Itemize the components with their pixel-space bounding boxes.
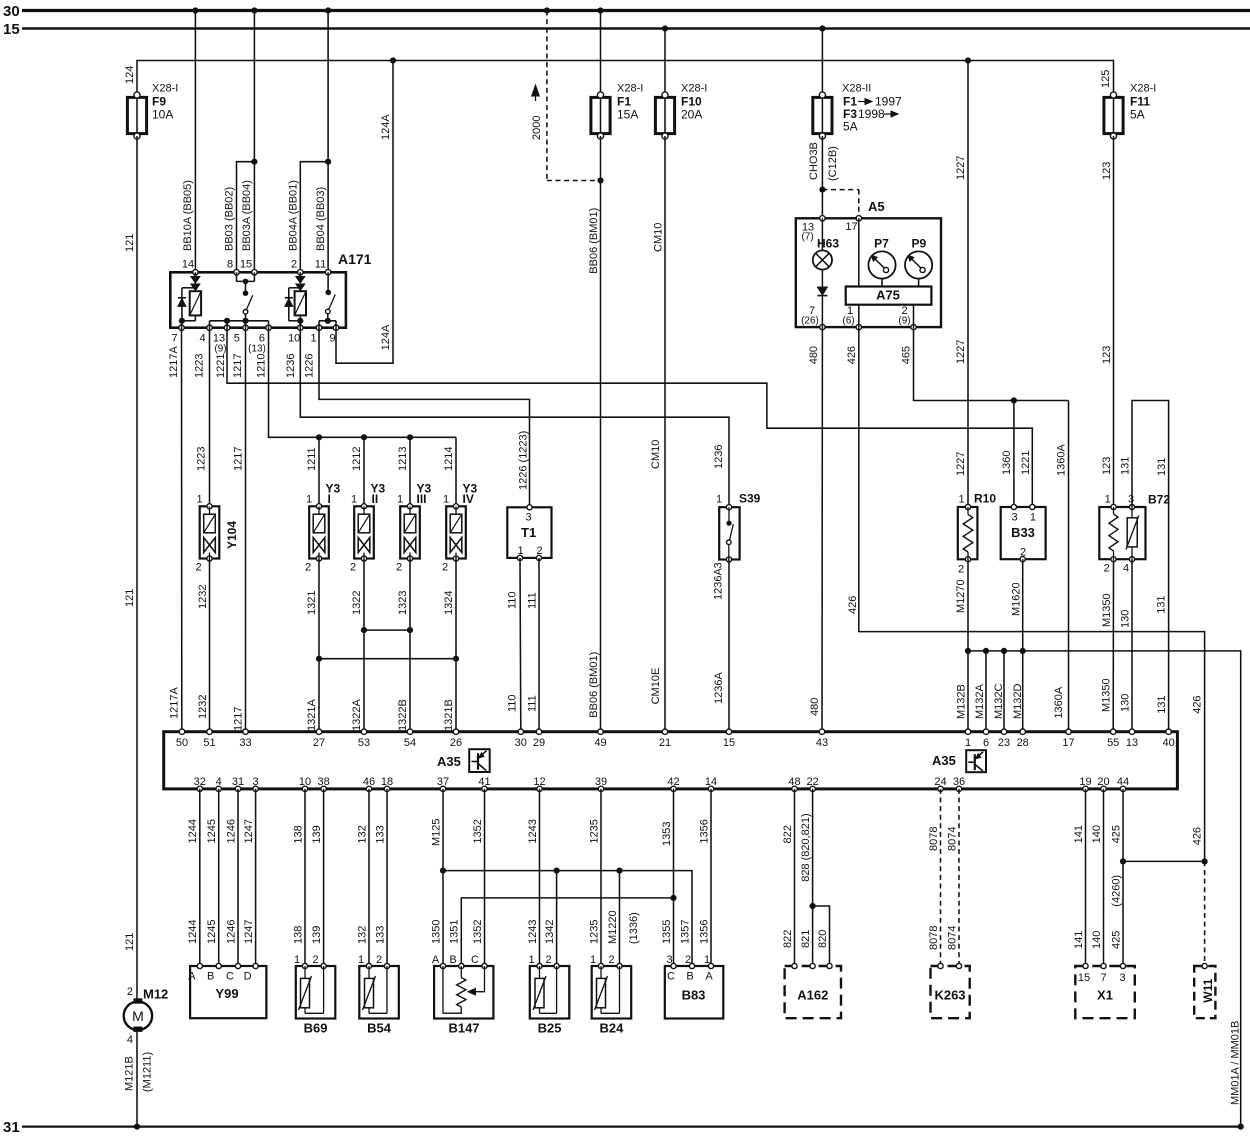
valve Y104 [200,504,220,561]
svg-text:44: 44 [1117,776,1129,788]
svg-text:139: 139 [311,926,323,944]
A35 pin 31 [235,786,240,791]
wire 1217A A171 pin7 to A35 pin50 [181,328,183,732]
svg-text:B: B [449,954,456,966]
svg-text:2: 2 [1020,547,1026,559]
svg-text:131: 131 [1156,695,1168,713]
dashed wire 8074 A35 pin36 to K263 [958,789,960,966]
wire 1226 A171 pin1 to T1 pin3 [319,328,530,508]
A35 pin 1 [965,729,970,734]
svg-text:T1: T1 [521,525,536,540]
instrument cluster A5 [796,199,941,327]
svg-text:26: 26 [450,737,462,749]
wire 1221 A171 pin13 to B33 pin1 [227,328,1032,507]
svg-text:426: 426 [847,596,859,614]
svg-text:4: 4 [1123,563,1129,575]
svg-text:1214: 1214 [443,447,455,471]
svg-text:(C12B): (C12B) [827,146,839,181]
wire 426 A5 pin1 to W11 [859,327,1205,861]
diode D2 [288,288,290,321]
A35 pin 12 [537,786,542,791]
svg-text:P7: P7 [874,237,889,251]
svg-text:41: 41 [478,776,490,788]
svg-text:M132C: M132C [993,683,1005,719]
svg-text:14: 14 [705,776,717,788]
svg-text:(6): (6) [842,316,854,327]
wire M132D to A35 pin28 [1022,651,1024,732]
A35 pin 49 [598,729,603,734]
svg-text:1356: 1356 [698,819,710,843]
svg-text:111: 111 [527,592,539,609]
svg-text:821: 821 [800,930,812,948]
wire 1245 A35 to Y99 [218,789,220,966]
lamp H63 [813,218,840,327]
svg-text:1236A: 1236A [713,568,725,600]
A35 pin 37 [440,786,445,791]
A5 pin 17 [856,216,861,221]
svg-text:125: 125 [1100,70,1112,88]
svg-text:1232: 1232 [197,585,209,609]
svg-text:1342: 1342 [544,920,556,944]
svg-text:1217: 1217 [232,354,244,378]
wire 124A A171 pin9 [336,61,393,364]
svg-text:1243: 1243 [527,819,539,843]
svg-text:1217A: 1217A [168,346,180,378]
fuse F10 20A [655,83,707,140]
svg-text:33: 33 [239,737,251,749]
actuator Y99 [188,963,266,1018]
svg-text:42: 42 [667,776,679,788]
svg-text:2: 2 [546,954,552,966]
svg-text:2: 2 [350,562,356,574]
A35 pin 24 [938,786,943,791]
svg-text:CHO3B: CHO3B [808,142,820,180]
sensor B83 [665,954,724,1019]
switch S39 [716,491,761,562]
svg-text:140: 140 [1091,825,1103,843]
svg-text:B83: B83 [682,988,706,1003]
svg-text:130: 130 [1120,610,1132,628]
svg-text:40: 40 [1162,737,1174,749]
svg-text:2: 2 [195,562,201,574]
amplifier A75 [846,218,932,327]
A35 pin 32 [197,786,202,791]
svg-text:1226 (1223): 1226 (1223) [518,431,530,490]
svg-text:1: 1 [196,494,202,506]
svg-text:141: 141 [1073,825,1085,843]
svg-text:M1350: M1350 [1101,678,1113,712]
svg-text:141: 141 [1073,931,1085,949]
A171 relay switch 1 [210,272,269,327]
svg-text:8078: 8078 [928,827,940,851]
A35 label right [932,750,986,772]
svg-text:1246: 1246 [225,819,237,843]
injector Y3 IV [446,504,466,561]
svg-text:1223: 1223 [194,354,206,378]
svg-text:1: 1 [358,954,364,966]
svg-text:123: 123 [1101,346,1113,364]
svg-text:X1: X1 [1097,988,1113,1003]
svg-text:1245: 1245 [206,920,218,944]
svg-text:1247: 1247 [243,819,255,843]
svg-text:480: 480 [808,346,820,364]
svg-text:1217: 1217 [233,447,245,471]
svg-text:3: 3 [1119,972,1125,984]
svg-text:5A: 5A [1130,108,1145,122]
injector Y3 II [354,504,374,561]
svg-text:36: 36 [953,776,965,788]
A35 pin 17 [1066,729,1071,734]
sensor B54 [358,954,399,1035]
diode D1 [181,288,183,321]
svg-text:133: 133 [374,926,386,944]
svg-text:M1620: M1620 [1011,582,1023,616]
wire stub BB03 A171 pin8 [237,162,255,270]
svg-text:822: 822 [782,930,794,948]
svg-text:12: 12 [533,776,545,788]
svg-text:1236: 1236 [713,445,725,469]
svg-text:CM10: CM10 [650,440,662,469]
svg-text:X28-I: X28-I [1130,83,1156,95]
svg-text:828 (820,821): 828 (820,821) [800,813,812,882]
A171 pin 6 [266,325,271,330]
svg-text:32: 32 [194,776,206,788]
svg-text:9: 9 [329,333,335,345]
sensor B147 potentiometer [432,954,494,1018]
svg-text:15: 15 [723,737,735,749]
svg-text:2: 2 [537,545,543,557]
svg-text:1: 1 [590,954,596,966]
wire 1211 [318,437,320,506]
svg-text:(M1211): (M1211) [142,1052,154,1092]
relay module A171 [170,251,371,328]
fuse F1/F3 5A [813,83,902,140]
svg-text:BB04A (BB01): BB04A (BB01) [288,180,300,251]
svg-text:14: 14 [182,259,194,271]
svg-text:7: 7 [171,333,177,345]
svg-text:1243: 1243 [527,920,539,944]
svg-text:(4260): (4260) [1110,875,1122,907]
svg-text:22: 22 [806,776,818,788]
wire 1210 A171 pin6 to injectors [269,328,457,438]
svg-text:822: 822 [782,825,794,843]
injector feed junctions [316,434,322,440]
svg-text:425: 425 [1110,825,1122,843]
svg-text:A35: A35 [437,754,461,769]
svg-text:1: 1 [518,545,524,557]
svg-text:5: 5 [234,333,240,345]
svg-text:1355: 1355 [661,920,673,944]
svg-text:B69: B69 [304,1021,328,1036]
wire 480 A5 pin7 to A35 pin43 [821,327,823,732]
svg-text:20: 20 [1097,776,1109,788]
wire BB10A from bus30 to A171 pin14 [194,11,196,271]
svg-text:10: 10 [288,333,300,345]
fuse F11 5A [1104,83,1156,140]
svg-text:132: 132 [356,825,368,843]
svg-text:121: 121 [124,589,136,607]
svg-text:13: 13 [1126,737,1138,749]
svg-text:B54: B54 [367,1021,392,1036]
svg-text:1227: 1227 [955,340,967,364]
svg-text:B72: B72 [1148,493,1170,507]
svg-text:2: 2 [127,986,133,998]
svg-text:M12: M12 [143,987,168,1002]
svg-text:426: 426 [846,346,858,364]
wire M125/1350 A35 pin37 to B147 pinA [442,789,444,966]
wire M1270 R10 to manifold [967,559,969,651]
svg-text:(9): (9) [898,316,910,327]
A171 pin 13 [224,325,229,330]
svg-text:1: 1 [443,494,449,506]
svg-text:8074: 8074 [946,827,958,851]
wire BB06 (BM01) F1 to A35 pin49 [600,136,602,732]
svg-text:B25: B25 [538,1021,562,1036]
wire M1220 (1336) B24 pin2 to ground jog [619,871,621,966]
svg-text:1245: 1245 [206,819,218,843]
wire 1322/1322A [363,559,365,732]
A35 pin 42 [671,786,676,791]
svg-text:1236A: 1236A [713,672,725,704]
svg-text:124A: 124A [380,114,392,140]
wire 110 T1 pin1 to A35 pin30 [519,558,522,732]
wire 1353/1355 A35 pin42 to B83 pin3 [673,789,675,966]
junction line124/1227 [965,57,971,63]
svg-text:B: B [207,971,214,983]
svg-text:MM01A / MM01B: MM01A / MM01B [1230,1021,1242,1105]
sensor B69 [294,954,335,1035]
svg-text:1323: 1323 [397,591,409,615]
svg-text:1235: 1235 [588,920,600,944]
wire 1360A to A35 pin17 [1068,401,1070,732]
A5 pin 13 [820,216,825,221]
A171 relay coil 1 (pin14/pin7) [178,272,201,327]
wire 111 T1 pin2 to A35 pin29 [538,558,540,732]
wire 1212 [363,437,365,506]
svg-text:1353: 1353 [661,822,673,846]
A171 relay coil 2 (pin2/pin10) [285,272,306,327]
connector W11 [1194,963,1215,1018]
wire 822 A35 pin48 to A162 [794,789,796,966]
svg-text:1: 1 [306,494,312,506]
connector X1 [1075,963,1135,1018]
svg-text:1: 1 [958,494,964,506]
svg-text:18: 18 [381,776,393,788]
tie 1322-1323 [364,629,410,631]
wire 139 A35 pin38 to B69 pin2 [323,789,325,966]
svg-text:1356: 1356 [698,920,710,944]
injector Y3 I [309,504,329,561]
A35 pin 29 [536,729,541,734]
wire 1235 A35 pin39 to B24 pin1 [600,789,602,966]
A35 pin 27 [316,729,321,734]
svg-text:X28-I: X28-I [617,83,643,95]
svg-text:BB06 (BM01): BB06 (BM01) [588,208,600,274]
svg-text:8: 8 [227,259,233,271]
wire CM10 F10 to A35 pin21 [664,136,666,732]
svg-text:X28-I: X28-I [681,83,707,95]
svg-text:820: 820 [817,930,829,948]
svg-text:M132A: M132A [974,683,986,719]
svg-text:1247: 1247 [243,920,255,944]
svg-text:1: 1 [294,954,300,966]
svg-text:1351: 1351 [449,920,461,944]
svg-text:43: 43 [816,737,828,749]
A35 label left [437,749,490,772]
svg-text:H63: H63 [817,237,839,251]
A35 pin 19 [1083,786,1088,791]
ignition coil T1 [507,505,551,561]
svg-text:1246: 1246 [225,920,237,944]
wire 1213 [409,437,411,506]
wire 131 B72 pin3 bridge to A35 pin40 [1132,401,1169,732]
svg-text:(7): (7) [801,232,813,243]
svg-text:3: 3 [526,512,532,524]
svg-text:15A: 15A [617,108,638,122]
svg-text:CM10E: CM10E [650,668,662,705]
svg-text:480: 480 [809,698,821,716]
wire 1227 line124 to R10 [967,61,969,508]
svg-text:31: 31 [232,776,244,788]
svg-text:29: 29 [533,737,545,749]
svg-text:1244: 1244 [187,819,199,843]
svg-text:1211: 1211 [306,447,318,471]
junction 465/1360 [1011,397,1017,403]
svg-text:A5: A5 [868,199,885,214]
svg-text:55: 55 [1107,737,1119,749]
svg-text:1227: 1227 [955,156,967,180]
svg-text:C: C [667,971,675,983]
wire 1352 A35 pin41 to B147 pinC [484,789,486,966]
svg-text:R10: R10 [974,492,996,506]
svg-text:10: 10 [299,776,311,788]
svg-text:2: 2 [685,954,691,966]
svg-text:1226: 1226 [304,354,316,378]
svg-text:3: 3 [1011,512,1017,524]
svg-text:5A: 5A [843,120,858,134]
svg-text:53: 53 [358,737,370,749]
svg-text:(13): (13) [248,344,266,355]
A35 pin 33 [243,729,248,734]
ECU A35 [164,732,1178,789]
A35 pin 46 [366,786,371,791]
svg-text:A: A [432,954,440,966]
svg-text:M1350: M1350 [1101,593,1113,627]
A35 pin 4 [216,786,221,791]
sensor B24 [590,954,631,1035]
svg-text:2000: 2000 [531,116,543,140]
wire CHO3B (C12B) to A5 pin13 [821,136,823,218]
svg-text:124A: 124A [380,324,392,350]
svg-text:M125: M125 [430,818,442,846]
wire 1342 B25 pin2 to ground jog [556,871,558,966]
wire M132B to A35 pin1 [967,651,969,732]
A35 pin 54 [407,729,412,734]
svg-text:131: 131 [1120,457,1132,475]
A171 pin 7 [179,325,184,330]
svg-text:4: 4 [216,776,222,788]
resistor R10 [958,492,997,562]
svg-text:139: 139 [311,825,323,843]
wire from bus30 to F1 [600,11,602,96]
wire 1243 A35 pin12 to B25 pin1 [539,789,541,966]
dashed wire 8078 A35 pin24 to K263 [940,789,942,966]
A35 pin 50 [179,729,184,734]
wire 465 A75 pin2 [914,327,1069,400]
dashed wire 2000 [546,11,548,181]
A35 pin 20 [1101,786,1106,791]
wire 425 (4260) A35 pin44 to X1 pin3 [1122,789,1124,966]
svg-text:123: 123 [1101,162,1113,180]
svg-text:3: 3 [713,562,725,568]
svg-text:7: 7 [1100,972,1106,984]
A35 pin 36 [956,786,961,791]
svg-text:425: 425 [1110,931,1122,949]
svg-text:131: 131 [1156,595,1168,613]
svg-text:140: 140 [1091,931,1103,949]
svg-text:2: 2 [376,954,382,966]
wire 1244 A35 to Y99 [199,789,201,966]
wire 1324/1321B [455,559,457,732]
bus 30 [22,9,1250,12]
svg-text:1: 1 [528,954,534,966]
svg-text:30: 30 [3,3,20,20]
svg-text:1221: 1221 [215,354,227,378]
svg-text:1350: 1350 [430,920,442,944]
svg-text:124: 124 [124,66,136,84]
svg-text:2: 2 [291,259,297,271]
svg-text:3: 3 [253,776,259,788]
fuse F1 15A [591,83,643,140]
svg-text:3: 3 [1128,494,1134,506]
wire 138 A35 pin10 to B69 pin1 [304,789,306,966]
wire M132C to A35 pin23 [1003,651,1005,732]
svg-text:49: 49 [594,737,606,749]
svg-text:K263: K263 [934,988,965,1003]
svg-text:6: 6 [983,737,989,749]
svg-text:III: III [417,492,427,506]
A35 pin 43 [819,729,824,734]
svg-text:C: C [226,971,234,983]
svg-text:2: 2 [958,564,964,576]
wire 1356 A35 pin14 to B83 pin1 [710,789,712,966]
bus 31 [22,1125,1243,1127]
A35 pin 10 [302,786,307,791]
svg-text:1: 1 [397,494,403,506]
svg-text:F10: F10 [681,95,702,109]
svg-text:30: 30 [515,737,527,749]
svg-text:S39: S39 [739,491,761,505]
svg-text:B: B [686,971,693,983]
svg-text:131: 131 [1156,458,1168,476]
A171 pin 2 [298,270,303,275]
A35 pin 14 [708,786,713,791]
svg-text:138: 138 [292,825,304,843]
svg-text:1360A: 1360A [1053,686,1065,718]
svg-text:1: 1 [704,954,710,966]
wire 1214 [455,437,457,506]
svg-text:1322: 1322 [351,591,363,615]
wire BB04 from bus30 to A171 pin11 [327,11,329,271]
svg-text:2: 2 [313,954,319,966]
arrow 2000 [535,89,537,101]
link 425 to 426 [1123,860,1205,862]
svg-text:2: 2 [305,562,311,574]
svg-text:A35: A35 [932,753,956,768]
svg-text:BB03A (BB04): BB03A (BB04) [241,180,253,251]
svg-text:38: 38 [317,776,329,788]
svg-text:54: 54 [404,737,416,749]
